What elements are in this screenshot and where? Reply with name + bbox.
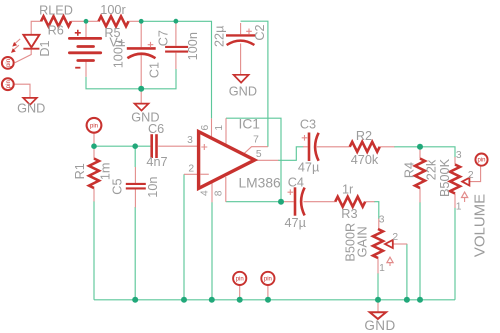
node C1 top bbox=[139, 19, 144, 24]
svg-text:470k: 470k bbox=[351, 153, 379, 167]
diode D1 (LED) bbox=[11, 35, 52, 57]
svg-text:pin: pin bbox=[6, 59, 12, 67]
svg-text:4n7: 4n7 bbox=[146, 155, 167, 169]
wire op-amp pin3 input bbox=[158, 145, 198, 147]
svg-text:3: 3 bbox=[187, 135, 193, 146]
svg-text:10n: 10n bbox=[146, 177, 160, 198]
resistor R4 22k bbox=[402, 159, 438, 189]
svg-text:LM386: LM386 bbox=[239, 176, 282, 191]
wire C3 left stub bbox=[303, 146, 308, 148]
wire C7 bottom stem bbox=[175, 53, 177, 69]
wire D1 cathode to pin bbox=[15, 50, 31, 63]
node rail spk2 bbox=[265, 297, 271, 303]
svg-text:1: 1 bbox=[379, 263, 385, 274]
wire op-amp pin5 output bbox=[256, 159, 279, 161]
node C1 bottom bbox=[138, 86, 144, 92]
wire op-amp pin1 stub bbox=[225, 118, 227, 146]
ground symbol under C1 bbox=[131, 104, 159, 125]
wire D1 top / R6 left (red) bbox=[31, 21, 41, 35]
svg-text:RLED: RLED bbox=[39, 3, 73, 17]
capacitor C4 47µ bbox=[284, 175, 306, 230]
wire left pin to GND bbox=[14, 84, 30, 98]
wire C5 top branch bbox=[134, 146, 136, 167]
wire C1 bottom stem bbox=[140, 55, 142, 89]
svg-text:6: 6 bbox=[200, 124, 211, 130]
svg-text:1m: 1m bbox=[98, 162, 112, 180]
wire C5 stubs bbox=[134, 167, 136, 183]
wire input net bbox=[94, 145, 150, 147]
wire C2 bottom stem to GND bbox=[240, 44, 242, 75]
wire ground rail bbox=[94, 299, 455, 301]
pin P6 (speaker pin) bbox=[261, 272, 274, 285]
potentiometer B500K (volume) bbox=[438, 150, 474, 213]
capacitor C3 47µ bbox=[298, 118, 320, 175]
wire R5 right to node bbox=[129, 20, 142, 22]
wire R1 bottom stub bbox=[93, 188, 95, 201]
wire R2 to pot node bbox=[394, 147, 455, 158]
svg-text:1: 1 bbox=[214, 125, 225, 131]
capacitor C1 100µ bbox=[112, 39, 162, 78]
wire op-amp pin7 stub bbox=[244, 147, 268, 154]
node C7 top bbox=[174, 19, 179, 24]
resistor R2 470k bbox=[350, 129, 380, 167]
svg-text:4: 4 bbox=[200, 190, 211, 196]
wire volume pot pin1 stub bbox=[454, 194, 456, 209]
resistor R6 (RLED) bbox=[41, 16, 71, 26]
wire pin2 to ground rail bbox=[183, 174, 185, 299]
svg-text:R2: R2 bbox=[356, 129, 372, 143]
pin P5 (speaker pin) bbox=[233, 272, 246, 285]
svg-text:3: 3 bbox=[456, 150, 462, 161]
wire pin1 route to gain node bbox=[226, 118, 281, 202]
resistor R3 1r bbox=[335, 183, 365, 222]
battery V+ bbox=[69, 30, 100, 68]
node rail gain1 bbox=[375, 297, 381, 303]
pin P1 (LED pin) bbox=[2, 57, 14, 69]
node rail spk1 bbox=[237, 297, 243, 303]
svg-text:pin: pin bbox=[264, 277, 272, 283]
wire pin4 to ground rail bbox=[211, 202, 213, 300]
svg-text:3: 3 bbox=[379, 215, 385, 226]
wire bottom pin stubs bbox=[239, 285, 241, 300]
svg-text:22µ: 22µ bbox=[212, 25, 226, 47]
resistor R1 1m bbox=[73, 159, 112, 189]
svg-text:C3: C3 bbox=[300, 118, 316, 132]
svg-text:22k: 22k bbox=[425, 159, 439, 180]
pin P4 (volume out pin) bbox=[475, 154, 487, 166]
capacitor C2 22µ bbox=[212, 24, 267, 47]
svg-text:C1: C1 bbox=[148, 62, 162, 78]
svg-text:pin: pin bbox=[236, 277, 244, 283]
svg-text:2: 2 bbox=[468, 170, 474, 181]
svg-text:R6: R6 bbox=[48, 24, 64, 38]
svg-text:47µ: 47µ bbox=[284, 216, 306, 230]
svg-text:C7: C7 bbox=[157, 30, 171, 46]
svg-text:100n: 100n bbox=[186, 32, 200, 60]
wire op-amp pin6 stub bbox=[211, 118, 213, 138]
wire volume pot pin3 stub bbox=[454, 157, 456, 165]
node gain network bbox=[278, 199, 284, 205]
svg-text:8: 8 bbox=[213, 190, 224, 196]
wire op-amp pin8 stub bbox=[225, 177, 227, 202]
svg-text:C6: C6 bbox=[148, 122, 164, 136]
svg-text:1r: 1r bbox=[342, 183, 354, 197]
svg-text:D1: D1 bbox=[38, 40, 52, 56]
wire gain pot wiper stub bbox=[393, 243, 407, 245]
node rail pin2 bbox=[181, 297, 187, 303]
wire volume wiper to pin bbox=[469, 166, 480, 182]
op-amp IC1 LM386 bbox=[199, 117, 281, 191]
node rail gain wiper bbox=[404, 297, 410, 303]
wire gain pot wiper to ground rail bbox=[406, 244, 408, 300]
svg-text:R3: R3 bbox=[341, 207, 357, 221]
wire output to C3 bbox=[278, 147, 304, 161]
pin P2 (gnd pin) bbox=[2, 78, 14, 90]
wire gain pot pin1 to ground rail bbox=[377, 273, 379, 300]
svg-text:GND: GND bbox=[229, 84, 257, 98]
wire R4 top stub bbox=[419, 147, 421, 159]
svg-text:B500K: B500K bbox=[438, 158, 452, 197]
svg-text:2: 2 bbox=[392, 232, 398, 243]
wire volume pot pin1 to ground rail bbox=[454, 208, 456, 300]
wire R3 right stub bbox=[365, 201, 374, 203]
svg-text:GND: GND bbox=[364, 318, 395, 333]
wire R1 top stub bbox=[93, 146, 95, 159]
wire R4 bottom stub bbox=[419, 188, 421, 203]
wire gain node to C4 bbox=[281, 201, 294, 203]
svg-text:2: 2 bbox=[188, 163, 194, 174]
svg-text:1: 1 bbox=[456, 202, 462, 213]
capacitor C5 10n bbox=[110, 177, 160, 198]
wire battery bottom stub bbox=[85, 62, 87, 77]
wire op-amp pin2 stub bbox=[184, 173, 199, 175]
node rail pin4 bbox=[209, 297, 215, 303]
node rail R4 bbox=[417, 297, 423, 303]
wire gain pot pin1 stub bbox=[377, 258, 379, 274]
svg-text:100r: 100r bbox=[100, 3, 126, 17]
potentiometer B500R (gain) bbox=[344, 215, 399, 275]
wire C1 top stem bbox=[140, 21, 142, 47]
svg-text:R1: R1 bbox=[73, 163, 87, 179]
wire input pin stub bbox=[93, 133, 95, 146]
wire R2 right stub bbox=[380, 146, 395, 148]
svg-text:C4: C4 bbox=[288, 175, 304, 189]
svg-text:pin: pin bbox=[90, 124, 98, 130]
svg-text:IC1: IC1 bbox=[239, 117, 260, 132]
svg-text:GND: GND bbox=[17, 101, 45, 115]
ground symbol left bbox=[17, 98, 45, 116]
svg-text:pin: pin bbox=[477, 158, 485, 164]
node battery top bbox=[84, 19, 89, 24]
wire battery minus to C1/C7 bottom bbox=[86, 69, 176, 89]
svg-text:GAIN: GAIN bbox=[355, 226, 369, 257]
svg-text:7: 7 bbox=[253, 135, 259, 146]
svg-text:R4: R4 bbox=[402, 162, 416, 178]
node output bbox=[417, 144, 423, 150]
svg-text:C5: C5 bbox=[110, 178, 124, 194]
ground symbol bottom bbox=[364, 312, 395, 333]
wire C5 bottom to ground rail bbox=[134, 207, 136, 300]
resistor R5 (100r) bbox=[99, 16, 129, 26]
wire op-amp pin4 stub bbox=[211, 183, 213, 203]
wire R1 bottom to ground rail bbox=[93, 201, 95, 300]
node rail C5 bbox=[132, 297, 138, 303]
wire C4 right to R3 bbox=[304, 201, 336, 203]
svg-text:47µ: 47µ bbox=[298, 160, 320, 174]
wire C1 node to GND bbox=[140, 89, 142, 104]
node input left bbox=[91, 143, 97, 149]
wire V+ top rail (green) bbox=[141, 21, 211, 118]
svg-text:VOLUME: VOLUME bbox=[471, 194, 488, 257]
svg-text:pin: pin bbox=[6, 80, 12, 88]
wire C2 to pin7 net bbox=[241, 21, 268, 147]
wire R4 bottom to ground rail bbox=[419, 202, 421, 300]
svg-text:C2: C2 bbox=[253, 24, 267, 40]
wire ground rail to GND symbol bbox=[377, 300, 379, 312]
wire battery top stub bbox=[85, 21, 87, 37]
wire pin8 to gain node bbox=[226, 201, 281, 203]
pin P3 (input pin) bbox=[87, 118, 102, 133]
svg-text:100µ: 100µ bbox=[112, 39, 126, 68]
wire C2 top stem bbox=[240, 23, 242, 34]
ground symbol under C2 bbox=[229, 75, 257, 99]
svg-text:5: 5 bbox=[256, 149, 262, 160]
wire gain pot pin3 stub bbox=[378, 219, 380, 230]
wire C7 top stem bbox=[175, 21, 177, 46]
capacitor C7 100n bbox=[157, 30, 200, 60]
capacitor C6 4n7 bbox=[146, 122, 167, 169]
node C5 top bbox=[132, 143, 138, 149]
wire R3 corner to gain pot bbox=[374, 202, 379, 219]
wire R6 right to R5 left bbox=[71, 20, 99, 22]
wire C3 right to R2 bbox=[317, 146, 350, 148]
